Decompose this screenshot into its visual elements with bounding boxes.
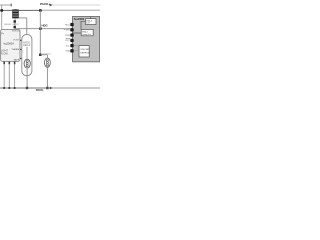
svg-text:Ctrl: Ctrl (86, 22, 90, 25)
svg-text:HDG: HDG (42, 24, 48, 28)
svg-text:PACK1: PACK1 (23, 42, 31, 45)
svg-text:MODUL: MODUL (12, 31, 21, 33)
svg-text:EEPROM: EEPROM (80, 52, 90, 54)
svg-text:PGND: PGND (64, 30, 71, 32)
svg-text:SDA: SDA (66, 50, 71, 53)
svg-text:PACK-: PACK- (36, 88, 44, 92)
svg-text:CELL2: CELL2 (23, 45, 31, 47)
svg-text:THERM: THERM (11, 49, 19, 51)
svg-text:PACK+: PACK+ (40, 2, 50, 6)
svg-text:VOUT: VOUT (13, 40, 20, 42)
svg-text:HDQ: HDQ (65, 24, 70, 26)
svg-text:REG5V INPUT: REG5V INPUT (4, 24, 19, 26)
svg-text:FLOW: FLOW (1, 52, 9, 55)
svg-text:ON-CHIP: ON-CHIP (80, 49, 90, 51)
svg-text:PGM: PGM (65, 35, 70, 37)
svg-text:VCC: VCC (65, 40, 70, 42)
svg-text:SAFE: SAFE (13, 58, 19, 61)
svg-text:SeJ2000: SeJ2000 (74, 17, 85, 21)
svg-text:bq2060A: bq2060A (4, 41, 15, 45)
svg-text:Lamp Drv: Lamp Drv (82, 34, 91, 36)
